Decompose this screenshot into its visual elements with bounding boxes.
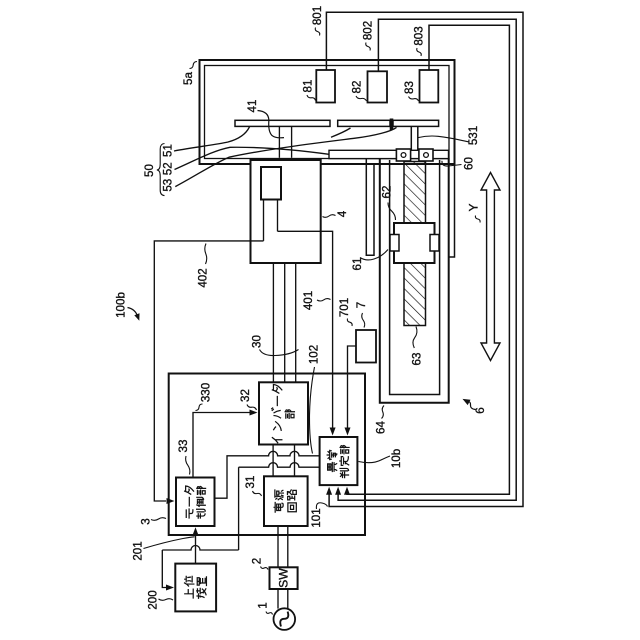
control unit 3 enclosure (169, 374, 365, 536)
support post 531 (wire holder) (410, 126, 412, 150)
frame 64 outer wall (380, 159, 449, 403)
linear guide rail 60 (329, 150, 449, 158)
notification line from 10b to host device (239, 463, 320, 468)
svg-text:7: 7 (355, 302, 368, 308)
svg-text:401: 401 (302, 291, 315, 310)
svg-text:62: 62 (381, 186, 394, 199)
svg-text:803: 803 (413, 26, 426, 45)
svg-text:33: 33 (177, 440, 190, 453)
cable channel from 40 (263, 200, 265, 241)
svg-text:701: 701 (338, 298, 351, 317)
svg-text:82: 82 (351, 81, 364, 94)
frame 64 inner wall (390, 160, 440, 395)
svg-text:201: 201 (132, 541, 145, 560)
line 701 from sensor 7 to determination unit (348, 346, 357, 430)
motor cable 30 phase 3 (295, 263, 297, 382)
svg-text:102: 102 (308, 345, 321, 364)
link line 32-31 (left) (272, 445, 274, 477)
power line 31 to SW (277, 526, 279, 567)
guide block (left) with roller (396, 149, 410, 161)
svg-text:53: 53 (162, 179, 175, 192)
wire 802 from box 82 to determination unit 10b (338, 19, 516, 500)
wire 53 (175, 127, 396, 186)
wire 801 from box 81 to determination unit 10b (326, 12, 523, 506)
wire 51 (174, 127, 250, 151)
svg-text:3: 3 (140, 518, 153, 524)
joint tick on bar 41 (390, 119, 393, 130)
ball screw 63 upper part (404, 162, 426, 224)
svg-text:64: 64 (375, 421, 388, 434)
ball screw 63 lower part (404, 263, 426, 326)
svg-text:61: 61 (351, 258, 364, 271)
housing 5a inner wall (205, 66, 450, 159)
motor unit 4 (251, 160, 321, 263)
abnormality determination unit 10b (320, 437, 358, 485)
svg-text:801: 801 (311, 6, 324, 25)
svg-text:531: 531 (467, 126, 480, 145)
svg-text:1: 1 (257, 602, 270, 608)
svg-text:41: 41 (246, 100, 259, 113)
svg-text:200: 200 (147, 590, 160, 609)
svg-text:81: 81 (302, 80, 315, 93)
motor control unit 33 (176, 478, 215, 527)
guide block (right) with roller (419, 149, 433, 161)
svg-text:SW: SW (277, 568, 291, 588)
brace for 50 (157, 144, 165, 196)
bearing tab 61 (right) (430, 235, 439, 252)
housing 5a outer wall (200, 60, 455, 164)
signal line 330 (193, 413, 252, 478)
guide bar 41 right segment (393, 120, 439, 126)
cable 402 from 40 to motor control unit (154, 241, 263, 501)
motor cable 30 phase 2 (284, 263, 286, 382)
AC power source 1 (274, 608, 296, 630)
Y-axis double arrow (481, 173, 500, 361)
svg-text:52: 52 (162, 162, 175, 175)
guide bar 41 left segment (235, 120, 330, 126)
contact box 82 (368, 71, 388, 102)
support post under bar (left) (278, 126, 280, 157)
switch SW 2 (270, 567, 298, 589)
wire 52 (175, 147, 330, 169)
wire funnel at middle bar segment (331, 128, 351, 137)
housing 5a wall extension (449, 164, 455, 257)
svg-text:51: 51 (162, 144, 175, 157)
contact box 83 (420, 70, 439, 103)
link line 32-31 (right) (294, 445, 296, 477)
svg-text:6: 6 (474, 407, 487, 413)
command line 201 from host device to 33 (195, 531, 197, 564)
svg-text:5a: 5a (182, 72, 195, 85)
signal line 102 from 33 to 10b (215, 451, 320, 498)
nut box 62 (394, 223, 435, 263)
cable 401 from 40 to determination unit (278, 231, 333, 430)
contact box 81 (316, 70, 335, 103)
power line SW to source (277, 589, 279, 609)
svg-text:802: 802 (362, 21, 375, 40)
svg-text:31: 31 (244, 476, 257, 489)
svg-text:83: 83 (403, 81, 416, 94)
inverter unit 32 (259, 382, 308, 444)
svg-text:101: 101 (310, 508, 323, 527)
svg-text:10b: 10b (390, 449, 403, 468)
svg-text:330: 330 (200, 383, 213, 402)
svg-text:63: 63 (411, 353, 424, 366)
svg-text:100b: 100b (114, 292, 127, 318)
encoder 40 (261, 167, 281, 200)
power circuit 31 (264, 476, 308, 526)
svg-text:50: 50 (143, 164, 156, 177)
svg-text:4: 4 (336, 210, 349, 217)
svg-text:32: 32 (239, 389, 252, 402)
guide bar 41 middle segment (338, 120, 390, 126)
svg-text:402: 402 (197, 268, 210, 287)
saddle bracket left hanger (366, 159, 374, 256)
sensor 7 (356, 330, 376, 363)
wire 803 from box 83 to determination unit 10b (347, 25, 509, 494)
bearing tab 61 (left) (390, 235, 399, 252)
host device 200 (175, 564, 216, 612)
svg-text:60: 60 (463, 157, 476, 170)
svg-text:Y: Y (467, 203, 481, 211)
svg-text:2: 2 (251, 558, 264, 564)
motor cable 30 phase 1 (272, 263, 274, 382)
svg-text:30: 30 (251, 335, 264, 348)
